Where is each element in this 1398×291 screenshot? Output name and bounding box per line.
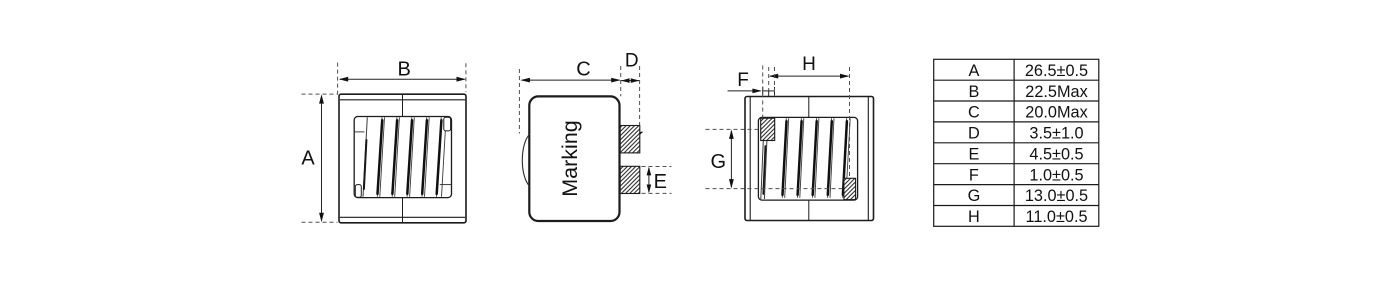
dimension E extension line top (642, 166, 672, 168)
svg-text:B: B (398, 59, 411, 81)
front view bottom flange line (340, 216, 465, 218)
front view top flange line (340, 99, 465, 101)
svg-text:G: G (968, 187, 981, 205)
dimension E arrow (647, 167, 652, 194)
svg-text:A: A (968, 62, 979, 80)
dimension F extension line left (762, 66, 764, 118)
svg-text:C: C (968, 104, 980, 122)
svg-text:H: H (968, 208, 980, 226)
dimension A extension line bottom (302, 221, 338, 223)
dimension C extension line right (620, 66, 622, 96)
dimension F extension line right (774, 67, 776, 96)
dimension D arrow (621, 78, 639, 83)
top view coil left edge lines below pad (761, 141, 767, 200)
svg-text:Marking: Marking (558, 120, 582, 196)
top view outer core outline (745, 97, 874, 221)
front view wire lead tab top-right (444, 117, 451, 131)
svg-text:3.5±1.0: 3.5±1.0 (1029, 125, 1083, 143)
dimension F end tick left (762, 87, 764, 95)
svg-text:C: C (576, 59, 590, 81)
dimension A extension line top (302, 93, 338, 95)
dimension B extension line right (465, 63, 467, 92)
front view outer core outline (339, 94, 466, 223)
front view window tick right lower (440, 184, 452, 186)
svg-text:A: A (301, 148, 315, 170)
dimension G extension line bottom (706, 188, 846, 190)
dimension H extension line right (849, 67, 851, 178)
front view center parting line top (402, 94, 404, 116)
terminal pad upper (620, 126, 640, 153)
svg-text:11.0±0.5: 11.0±0.5 (1025, 208, 1087, 226)
terminal pad lower (620, 166, 640, 193)
front view window tick left upper (354, 131, 364, 133)
dimension A arrow (319, 94, 324, 222)
dimension B arrow (339, 77, 466, 82)
svg-text:26.5±0.5: 26.5±0.5 (1025, 62, 1088, 80)
svg-text:D: D (625, 51, 639, 72)
top view center parting line top (808, 97, 810, 118)
svg-text:H: H (802, 54, 816, 75)
svg-text:F: F (969, 166, 979, 184)
top view winding window (758, 117, 857, 200)
dimension H extension line left (768, 67, 770, 91)
front view coil left partial shade (364, 140, 367, 189)
svg-text:F: F (737, 70, 749, 91)
dimension D extension line right (639, 66, 641, 125)
dimension C arrow (521, 78, 621, 83)
top view center parting line bottom (808, 200, 810, 220)
dimension B extension line left (337, 63, 339, 95)
front view right edge turn line (442, 131, 446, 197)
front view wire lead tab bottom-left (355, 185, 361, 198)
top view left flange line (749, 97, 751, 220)
dimension G arrow (729, 130, 734, 189)
top view right flange line (867, 97, 869, 220)
front view winding window (354, 117, 451, 198)
terminal pad top-left (top view) (761, 118, 775, 140)
top view coil turns (782, 118, 850, 198)
svg-text:D: D (968, 125, 980, 143)
table text (968, 62, 1089, 226)
svg-text:E: E (968, 145, 979, 163)
terminal pad upper leader tick (640, 132, 643, 135)
side view wire bulge (522, 134, 530, 186)
dimension F measure line (763, 90, 775, 92)
dimension F end tick right (774, 87, 776, 95)
svg-text:22.5Max: 22.5Max (1025, 83, 1087, 101)
dimension F leader arrow (728, 89, 762, 94)
dimension H arrow (769, 74, 850, 79)
svg-text:20.0Max: 20.0Max (1025, 104, 1087, 122)
svg-text:1.0±0.5: 1.0±0.5 (1029, 166, 1083, 184)
side view body outline (529, 96, 619, 221)
dimension C extension line left (518, 69, 520, 134)
front view center parting line bottom (402, 198, 404, 223)
svg-text:B: B (968, 83, 979, 101)
dimension F drop line (768, 91, 770, 97)
front view coil left edge line (363, 117, 367, 197)
terminal pad bottom-right (top view) (844, 178, 856, 199)
dimension G extension line top (706, 128, 761, 130)
svg-text:G: G (711, 151, 727, 173)
table grid (934, 59, 1099, 226)
svg-text:13.0±0.5: 13.0±0.5 (1025, 187, 1088, 205)
dimension E extension line bottom (642, 192, 672, 194)
svg-text:E: E (654, 171, 667, 193)
svg-text:4.5±0.5: 4.5±0.5 (1029, 145, 1083, 163)
front view coil turns (377, 117, 441, 197)
